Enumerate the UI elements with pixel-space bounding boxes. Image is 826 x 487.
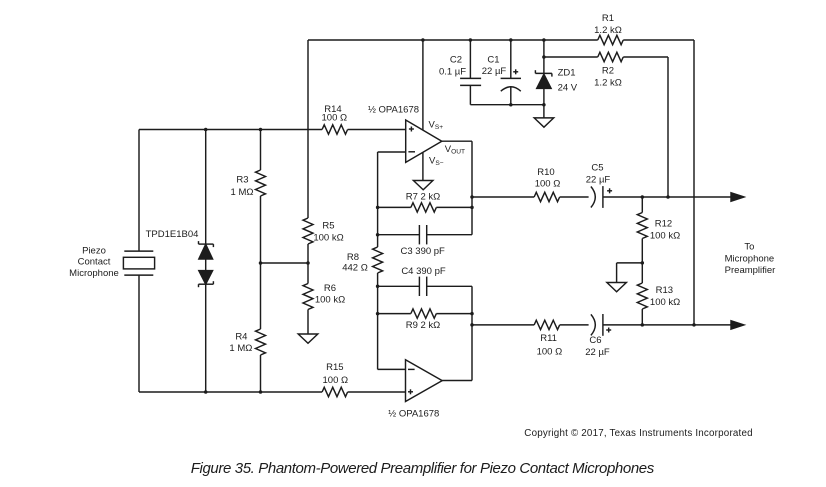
capacitor C4 xyxy=(419,277,426,296)
label R7 value xyxy=(406,192,441,203)
label R11 value xyxy=(537,333,563,357)
wire main input line xyxy=(139,129,406,131)
wire C1 branch xyxy=(510,40,512,105)
resistor R7 xyxy=(411,203,437,212)
svg-text:100 kΩ: 100 kΩ xyxy=(313,232,343,243)
resistor R8 xyxy=(373,247,383,273)
resistor R10 xyxy=(534,192,560,201)
svg-text:Microphone: Microphone xyxy=(69,268,119,279)
op-amp U2 minus input mark xyxy=(408,368,415,370)
resistor R3 xyxy=(256,170,266,196)
svg-text:C4 390 pF: C4 390 pF xyxy=(401,266,446,277)
svg-text:100 Ω: 100 Ω xyxy=(323,375,349,386)
label ZD1 value xyxy=(558,68,578,94)
wire R12 R13 column xyxy=(641,197,643,325)
svg-text:100 kΩ: 100 kΩ xyxy=(650,297,680,308)
label R6 value xyxy=(315,283,345,305)
svg-text:R7 2 kΩ: R7 2 kΩ xyxy=(406,192,441,203)
wire ZD1 branch xyxy=(543,40,545,118)
svg-text:Piezo: Piezo xyxy=(82,246,106,257)
svg-text:1.2 kΩ: 1.2 kΩ xyxy=(594,25,622,36)
svg-text:R5: R5 xyxy=(322,221,334,232)
svg-text:R12: R12 xyxy=(655,219,672,230)
resistor R11 xyxy=(534,320,560,329)
wire op-amp U1 Vs- to ground xyxy=(422,152,424,180)
svg-text:Microphone: Microphone xyxy=(725,253,775,264)
resistor R2 xyxy=(598,52,624,61)
label U2 half OPA1678 xyxy=(388,409,439,420)
wire feedback left column R8 xyxy=(377,152,379,369)
label R2 value xyxy=(594,65,622,88)
wire R2 right vertical drop xyxy=(667,57,669,197)
svg-text:ZD1: ZD1 xyxy=(558,68,576,79)
svg-text:100 kΩ: 100 kΩ xyxy=(315,295,345,306)
label C3 value xyxy=(401,246,446,257)
svg-text:R8: R8 xyxy=(347,252,359,263)
svg-text:100 Ω: 100 Ω xyxy=(537,346,563,357)
arrow top output xyxy=(731,193,744,201)
resistor R4 xyxy=(256,329,266,355)
wire R3 R4 column xyxy=(260,130,262,393)
label R8 value xyxy=(342,252,368,274)
label piezo contact microphone xyxy=(69,246,119,279)
svg-text:Preamplifier: Preamplifier xyxy=(725,265,776,276)
wire R9 feedback xyxy=(378,313,472,315)
figure caption xyxy=(191,460,655,477)
ground below R6 xyxy=(298,334,318,343)
TVS diode TPD1E1B04 xyxy=(199,241,214,287)
label To Microphone Preamplifier xyxy=(725,242,776,277)
label C4 value xyxy=(401,266,446,277)
svg-text:100 Ω: 100 Ω xyxy=(535,178,561,189)
wire op-amp U1 Vs+ supply xyxy=(422,40,424,130)
wire supply caps bottom xyxy=(470,104,544,106)
wire top output line xyxy=(472,196,733,198)
svg-text:0.1 µF: 0.1 µF xyxy=(439,67,466,78)
label C5 value xyxy=(586,163,612,194)
wire bottom output line xyxy=(472,324,733,326)
svg-text:22 µF: 22 µF xyxy=(586,175,611,186)
label R15 value xyxy=(323,362,349,386)
label TPD1E1B04 xyxy=(146,229,199,240)
svg-text:R3: R3 xyxy=(236,175,248,186)
resistor R15 xyxy=(322,387,348,396)
wire op-amp U1 inverting input xyxy=(378,151,406,153)
svg-text:R9 2 kΩ: R9 2 kΩ xyxy=(406,320,441,331)
svg-text:R11: R11 xyxy=(540,333,557,344)
wire TPD column xyxy=(205,130,207,393)
capacitor C3 xyxy=(419,225,426,244)
label R9 value xyxy=(406,320,441,331)
wire R2 branch xyxy=(544,56,668,58)
svg-text:R10: R10 xyxy=(537,167,554,178)
resistor R1 xyxy=(598,35,624,44)
op-amp U2 (1/2 OPA1678 bottom) xyxy=(406,360,443,402)
ground at U1 Vs- xyxy=(413,181,433,190)
svg-text:1 MΩ: 1 MΩ xyxy=(231,187,254,198)
arrow bottom output xyxy=(731,321,744,329)
wire mid bias branch xyxy=(261,262,309,264)
resistor R9 xyxy=(411,309,437,318)
svg-text:22 µF: 22 µF xyxy=(585,347,610,358)
label U1 Vs- pin xyxy=(429,156,444,167)
svg-text:Copyright © 2017, Texas Instru: Copyright © 2017, Texas Instruments Inco… xyxy=(524,428,752,439)
capacitor C5 polarized xyxy=(591,186,603,208)
label R4 value xyxy=(229,331,252,354)
piezo contact microphone element xyxy=(123,251,154,275)
svg-text:442 Ω: 442 Ω xyxy=(342,263,368,274)
capacitor C6 polarized xyxy=(591,314,603,336)
svg-text:C6: C6 xyxy=(589,335,601,346)
svg-text:C3 390 pF: C3 390 pF xyxy=(401,246,446,257)
capacitor C1 polarized xyxy=(501,78,521,91)
wire bottom rail xyxy=(139,391,406,393)
wire op-amp U2 inverting input xyxy=(378,368,406,370)
label R12 value xyxy=(650,219,680,242)
svg-text:Figure 35. Phantom-Powered Pre: Figure 35. Phantom-Powered Preamplifier … xyxy=(191,460,655,477)
svg-text:To: To xyxy=(744,242,754,253)
svg-text:R6: R6 xyxy=(324,283,336,294)
svg-text:100 kΩ: 100 kΩ xyxy=(650,230,680,241)
wire ground branch at R12 R13 junction xyxy=(617,263,643,283)
label R5 value xyxy=(313,221,343,244)
wire C2 branch xyxy=(469,40,471,105)
svg-text:C2: C2 xyxy=(450,55,462,66)
svg-text:1 MΩ: 1 MΩ xyxy=(229,343,252,354)
wire supply left drop / R5 R6 column xyxy=(307,40,309,334)
svg-text:½ OPA1678: ½ OPA1678 xyxy=(368,105,419,116)
wire R1 right vertical drop xyxy=(693,40,695,325)
svg-text:R13: R13 xyxy=(656,285,673,296)
svg-text:½ OPA1678: ½ OPA1678 xyxy=(388,409,439,420)
ground at R12 R13 junction xyxy=(607,283,627,292)
op-amp U2 plus input mark xyxy=(408,389,413,394)
svg-text:1.2 kΩ: 1.2 kΩ xyxy=(594,77,622,88)
label U1 half OPA1678 xyxy=(368,105,419,116)
label R3 value xyxy=(231,175,254,198)
svg-text:Contact: Contact xyxy=(78,257,111,268)
svg-text:100 Ω: 100 Ω xyxy=(322,113,348,124)
svg-text:R2: R2 xyxy=(602,65,614,76)
copyright notice xyxy=(524,428,752,439)
wire piezo column xyxy=(138,130,140,393)
resistor R5 xyxy=(303,218,313,244)
label R13 value xyxy=(650,285,680,308)
label R1 value xyxy=(594,13,622,36)
label C2 value xyxy=(439,55,466,78)
svg-text:R4: R4 xyxy=(235,331,247,342)
svg-text:C5: C5 xyxy=(591,163,603,174)
label R14 value xyxy=(322,104,348,124)
wire R7 feedback xyxy=(378,206,472,208)
svg-text:R1: R1 xyxy=(602,13,614,24)
resistor R13 xyxy=(637,283,647,309)
resistor R6 xyxy=(303,284,313,310)
svg-text:TPD1E1B04: TPD1E1B04 xyxy=(146,229,199,240)
label C1 value xyxy=(482,55,518,78)
zener diode ZD1 xyxy=(535,70,552,88)
wire op-amp U1 output xyxy=(442,141,472,235)
ground below ZD1 xyxy=(534,118,554,127)
wire op-amp U2 output xyxy=(442,286,472,380)
wire C3 feedback xyxy=(378,234,472,236)
label U1 Vout pin xyxy=(445,144,465,155)
op-amp U1 plus input mark xyxy=(409,127,414,132)
wire C4 feedback xyxy=(378,285,472,287)
wire top supply rail xyxy=(308,39,694,41)
svg-text:C1: C1 xyxy=(487,55,499,66)
label R10 value xyxy=(535,167,561,189)
svg-text:24 V: 24 V xyxy=(558,82,578,93)
resistor R12 xyxy=(637,213,647,239)
resistor R14 xyxy=(322,125,348,134)
capacitor C2 xyxy=(460,78,481,85)
op-amp U1 minus input mark xyxy=(408,151,415,153)
label C6 value xyxy=(585,328,611,359)
label U1 Vs+ pin xyxy=(429,120,444,131)
op-amp U1 (1/2 OPA1678 top) xyxy=(406,120,442,162)
svg-text:R15: R15 xyxy=(326,362,343,373)
svg-text:22 µF: 22 µF xyxy=(482,66,507,77)
